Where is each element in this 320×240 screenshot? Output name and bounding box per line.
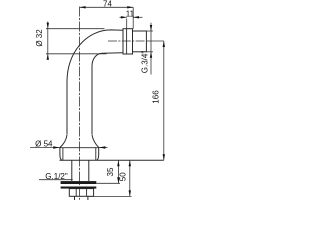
dimension 74 line bbox=[80, 6, 134, 8]
vertical centerline of spout column bbox=[79, 7, 81, 200]
svg-text:11: 11 bbox=[126, 9, 135, 18]
foot inner right edge bbox=[95, 148, 97, 161]
mounting plane line bbox=[60, 159, 164, 161]
arrow down onto 28.7 bbox=[47, 23, 49, 29]
svg-text:35: 35 bbox=[106, 167, 115, 176]
dimension line 166 bbox=[163, 41, 165, 160]
arrow down onto 31 bbox=[150, 25, 152, 31]
extension line G3/4 top bbox=[146, 30, 153, 32]
hex locknut bbox=[69, 189, 93, 197]
extension line for 11/74 right bbox=[132, 7, 134, 29]
arrow up onto plane at 35 bbox=[117, 160, 119, 166]
svg-text:G.3/4": G.3/4" bbox=[141, 51, 150, 74]
base flare (trumpet) left bbox=[60, 135, 67, 148]
extension line 50 bbox=[88, 195, 132, 197]
washer bar 2 bbox=[61, 187, 97, 189]
hex nut facets bbox=[76, 189, 86, 197]
arrow down onto 196 bbox=[129, 190, 131, 196]
extension line top of diameter 32 bbox=[46, 28, 105, 30]
svg-text:Ø 32: Ø 32 bbox=[35, 29, 44, 47]
extension line for 11 left bbox=[126, 19, 128, 29]
foot outer left edge bbox=[60, 148, 62, 161]
pipe stub below nut bbox=[75, 196, 88, 200]
arrow pointing left at 11 right bbox=[133, 16, 139, 18]
extension line from outlet centerline to 166 dim bbox=[146, 40, 163, 42]
foot outer right edge bbox=[96, 148, 98, 161]
arrow onto flare left bbox=[53, 146, 59, 149]
outlet collar ring bbox=[123, 29, 133, 54]
arrow down onto 183 bbox=[117, 177, 119, 183]
extension line 35 bbox=[96, 182, 120, 184]
arrow left of 74 bbox=[80, 6, 86, 8]
arrow onto flare right bbox=[99, 146, 105, 149]
svg-text:74: 74 bbox=[103, 0, 112, 8]
arrow pointing right at 11 left bbox=[121, 16, 127, 18]
arrow up onto 51.8 bbox=[150, 52, 152, 58]
arrow down onto plane 160 bbox=[163, 154, 165, 160]
dimension line 35 bbox=[117, 160, 119, 183]
threaded outlet G3/4 bbox=[133, 31, 147, 52]
dimension 11 line right part bbox=[133, 16, 142, 18]
right arrow segment diameter 54 bbox=[99, 147, 108, 149]
base flare right bbox=[92, 135, 99, 148]
horizontal centerline of outlet bbox=[108, 40, 146, 42]
foot inner left edge bbox=[62, 148, 64, 161]
arrow up onto plane at 50 bbox=[129, 160, 131, 166]
dimension 11 line left part bbox=[120, 16, 127, 18]
svg-text:166: 166 bbox=[152, 90, 161, 104]
tail pipe below plane bbox=[72, 160, 89, 181]
svg-text:50: 50 bbox=[119, 172, 128, 181]
dimension line G3/4 bbox=[150, 23, 152, 75]
svg-text:G.1/2": G.1/2" bbox=[45, 172, 68, 181]
washer bar 1 bbox=[61, 181, 97, 184]
extension line bottom of diameter 32 bbox=[46, 53, 107, 55]
svg-text:Ø 54: Ø 54 bbox=[35, 139, 53, 148]
arrow right of 74 bbox=[127, 6, 133, 8]
dimension line diameter 32 bbox=[47, 22, 49, 60]
arrow up onto 41 bbox=[163, 41, 165, 47]
spout end face bbox=[122, 30, 124, 52]
extension line G3/4 bottom bbox=[146, 51, 153, 53]
dimension line 50 bbox=[129, 160, 131, 196]
collar groove line bbox=[126, 29, 128, 54]
leader line diameter 54 bbox=[30, 146, 60, 148]
leader line G1/2 bbox=[39, 179, 73, 181]
arrow up onto 53.8 bbox=[47, 54, 49, 60]
flare bottom edge bbox=[60, 147, 99, 149]
spout outline (column, elbow, taper) bbox=[67, 30, 123, 135]
